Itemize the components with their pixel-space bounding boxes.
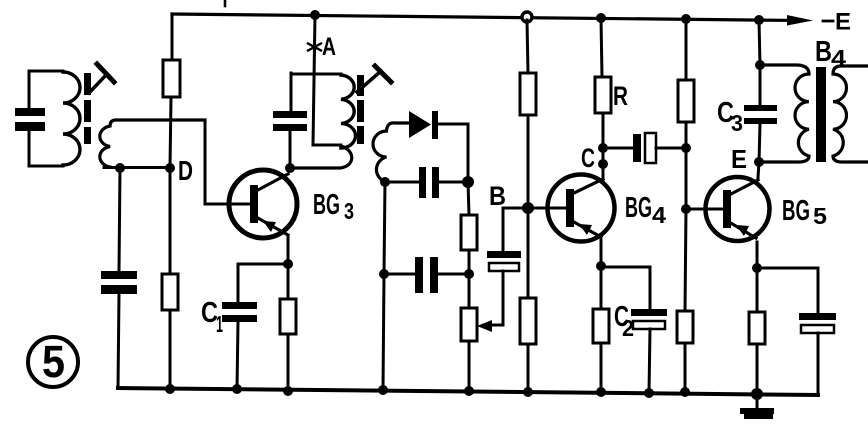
junction dot (464, 386, 474, 396)
svg-text:1: 1 (216, 311, 223, 337)
wire tank bottom (29, 165, 63, 168)
wire left drop from rail (171, 14, 174, 61)
ground (740, 394, 774, 419)
svg-text:E: E (731, 144, 747, 174)
junction dot (379, 269, 389, 279)
wire C1 to rail (237, 322, 238, 389)
resistor divider lower BG5 (677, 311, 693, 343)
diode D1 (409, 111, 468, 139)
junction dot (464, 269, 474, 279)
wire diode node down (468, 182, 469, 215)
svg-text:R: R (613, 81, 628, 111)
wire bottom rail (118, 388, 818, 395)
svg-text:2: 2 (622, 315, 634, 341)
wire to rail (527, 344, 530, 392)
wire emitter BG3 (287, 236, 290, 264)
junction dot collector BG3 (285, 163, 295, 173)
scan speck top (224, 0, 227, 6)
figure number 5 circled (28, 336, 78, 387)
inductor L4 detector coil (373, 123, 408, 182)
capacitor detector upper (385, 167, 468, 198)
svg-text:C: C (581, 143, 595, 173)
wire (527, 115, 530, 208)
core L1 dashed (84, 73, 91, 144)
wire divider lower (685, 209, 686, 311)
resistor left lower (162, 274, 178, 310)
wire C2 to rail (649, 329, 650, 393)
transistor BG3 (229, 170, 297, 238)
wire emitter to resistor (287, 264, 290, 299)
capacitor antenna tank (15, 108, 45, 131)
junction dot (115, 163, 125, 173)
wire tank top (29, 70, 63, 73)
wire divider upper (527, 20, 528, 73)
svg-text:E: E (835, 9, 851, 36)
junction dot primary top (755, 60, 765, 70)
wire cap to collector node (289, 131, 292, 168)
svg-text:4: 4 (652, 202, 666, 228)
transistor BG5 (706, 177, 770, 241)
wire node B horizontal (503, 207, 567, 210)
arrowhead -E rail (787, 15, 813, 26)
wire C3 up (759, 65, 762, 105)
junction dot (378, 385, 388, 395)
wire rail to R (601, 18, 602, 77)
potentiometer volume (461, 308, 477, 341)
wire to rail (600, 343, 603, 392)
resistor BG3 emitter (280, 299, 296, 334)
transformer B4 primary (760, 65, 809, 162)
junction dot (283, 259, 293, 269)
capacitor detector lower (384, 257, 469, 293)
junction dot diode out (462, 176, 474, 188)
wire top rail -E (172, 14, 792, 20)
wire cap to wiper (484, 271, 503, 325)
wire left AGC down (384, 182, 385, 274)
wire E up to C3 (759, 124, 760, 162)
wire to C2 (601, 267, 650, 309)
junction dot (596, 387, 606, 397)
capacitor C1 (222, 302, 257, 322)
node A asterisk (308, 40, 321, 54)
wire D down (169, 168, 172, 275)
svg-text:3: 3 (731, 110, 743, 136)
connector ring top rail (522, 12, 532, 22)
inductor L1 antenna coil (63, 72, 80, 165)
capacitor C2 electrolytic (631, 309, 667, 329)
resistor divider lower BG4 (520, 298, 536, 344)
wire diode down (467, 124, 470, 182)
wire tank3 top (291, 73, 341, 76)
node E dot (754, 157, 764, 167)
resistor divider upper BG4 (520, 73, 536, 115)
capacitor coupling C-node electrolytic (603, 133, 686, 163)
wire to bottom rail (169, 310, 172, 389)
svg-text:D: D (178, 155, 193, 186)
transformer B4 secondary (833, 66, 868, 162)
trimmer arrow L3 (357, 71, 381, 92)
junction dot (644, 388, 654, 398)
svg-text:4: 4 (831, 45, 846, 71)
wire to rail (756, 344, 759, 394)
junction dot (232, 384, 242, 394)
resistor divider upper BG5 (678, 80, 694, 122)
node D dot (165, 163, 175, 173)
capacitor C3 (744, 105, 777, 124)
junction dot (752, 263, 762, 273)
resistor R (595, 77, 611, 113)
core L3 dashed (357, 75, 364, 144)
wire emitter resistor (600, 266, 603, 309)
svg-text:5: 5 (42, 336, 65, 387)
junction dot base BG5 (681, 204, 691, 214)
wire emitter resistor BG5 (756, 268, 759, 312)
svg-text:BG: BG (782, 195, 810, 227)
wire base BG5 (686, 208, 724, 211)
wire cap bottom (28, 131, 31, 166)
junction dot rail R (596, 13, 606, 23)
junction dot L4 bottom (380, 177, 390, 187)
svg-text:A: A (322, 33, 336, 61)
wiper arrowhead (477, 320, 492, 332)
transformer B4 core (816, 67, 826, 162)
svg-text:5: 5 (813, 203, 827, 229)
inductor L2 coupled coil (100, 120, 205, 167)
wire pot to rail (468, 341, 471, 391)
junction dot (165, 384, 175, 394)
junction dot (751, 388, 763, 400)
junction dot rail A (310, 10, 320, 20)
junction dot (283, 386, 293, 396)
wire to rail (684, 343, 687, 392)
wire (468, 250, 471, 308)
junction dot B (522, 202, 534, 214)
junction dot rail divider BG5 (681, 14, 691, 24)
wire cap top (28, 71, 31, 108)
inductor L3 tank coil (341, 75, 356, 148)
trimmer arrow L1 (89, 74, 107, 93)
capacitor left bypass (101, 271, 137, 294)
wire L3 bottom swoop (290, 146, 352, 168)
capacitor coupling B electrolytic (487, 251, 521, 271)
wire cap to rail (118, 294, 119, 388)
wire collector BG5 to E (758, 162, 759, 178)
resistor BG5 emitter (749, 312, 765, 344)
capacitor tank BG3 (273, 111, 307, 131)
svg-text:BG: BG (625, 192, 652, 224)
wire divider mid (685, 122, 688, 209)
resistor top-left (163, 60, 180, 97)
wire tank3 left (290, 73, 293, 111)
wire bypass branch BG5 (757, 268, 818, 313)
wire down to cap (119, 168, 120, 271)
capacitor BG5 bypass electrolytic (799, 313, 836, 333)
svg-text:BG: BG (313, 189, 340, 221)
wire divider lower (527, 208, 530, 298)
node C dot (598, 159, 608, 169)
wire cap to rail corner (817, 333, 820, 394)
junction dot coupling (598, 143, 608, 153)
resistor volume upper (461, 215, 477, 250)
wire rail to resistor (685, 19, 688, 80)
wire L2 bottom to D (104, 166, 170, 169)
wire node A (313, 15, 315, 145)
wire down to rail (383, 274, 384, 390)
wire emitter BG5 (756, 242, 759, 268)
junction dot (680, 387, 690, 397)
wire resistor to rail (287, 334, 290, 391)
junction dot rail (754, 15, 764, 25)
wire L2 to BG3 base (205, 120, 251, 204)
junction dot coupling out (681, 143, 691, 153)
transistor BG4 (548, 175, 615, 242)
label -E (823, 20, 833, 23)
wire to C1 (238, 264, 288, 302)
wire B down (502, 208, 505, 251)
junction dot (596, 261, 606, 271)
wire resistor to D (170, 97, 171, 168)
junction dot (523, 387, 533, 397)
wire to rail (759, 20, 760, 65)
svg-text:B: B (815, 36, 832, 68)
wire R to collector BG4 (602, 113, 605, 180)
resistor BG4 emitter (593, 309, 609, 343)
svg-text:3: 3 (344, 198, 354, 224)
wire emitter BG4 (600, 240, 603, 266)
